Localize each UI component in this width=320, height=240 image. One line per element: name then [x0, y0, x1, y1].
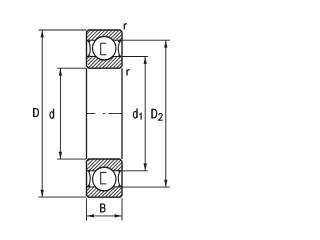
- label d: [50, 109, 54, 119]
- label D: [34, 108, 39, 117]
- bore side line right: [121, 68, 123, 159]
- bore side line left: [86, 68, 88, 159]
- d extension top: [57, 67, 86, 69]
- B extension right: [121, 198, 123, 221]
- d dimension line: [59, 68, 61, 159]
- bottom block body: [87, 159, 123, 197]
- centerline: [87, 113, 123, 115]
- label B: [101, 203, 105, 212]
- right shield (top): [118, 41, 122, 57]
- label r top: [124, 24, 127, 30]
- inner ring hatch (bottom): [87, 159, 123, 171]
- inner ring raceway boundary: [87, 57, 123, 61]
- arrow d1 bottom: [144, 163, 147, 170]
- d1 dimension line: [144, 57, 146, 171]
- B extension left: [86, 198, 88, 221]
- arrow d top: [59, 68, 62, 75]
- left shield (top): [87, 41, 91, 57]
- arrow D bottom: [41, 190, 44, 197]
- arrow D2 bottom: [164, 180, 167, 187]
- outer ring hatch (bottom): [87, 187, 123, 197]
- left shield (bottom): [87, 170, 91, 186]
- label D2: [152, 109, 163, 121]
- inner ring hatch (top): [87, 57, 123, 69]
- d1 extension top: [122, 56, 148, 58]
- outer ring raceway boundary: [87, 36, 123, 40]
- D dimension line: [41, 30, 43, 197]
- arrow B left: [87, 214, 94, 217]
- D extension top: [39, 29, 87, 31]
- top block body: [87, 30, 123, 68]
- arrow d1 top: [144, 57, 147, 64]
- outer ring raceway boundary (bottom): [87, 187, 123, 191]
- arrow D2 top: [164, 40, 167, 47]
- ball center mark (top): [101, 43, 107, 55]
- block outline: [87, 30, 123, 68]
- ball center mark (bottom): [101, 172, 107, 184]
- D2 extension bottom: [122, 186, 170, 188]
- arrow D top: [41, 30, 44, 37]
- D2 dimension line: [165, 40, 167, 187]
- ball (bottom): [93, 167, 116, 190]
- arrow B right: [115, 214, 122, 217]
- d1 extension bottom: [122, 170, 148, 172]
- D extension bottom: [39, 196, 87, 198]
- ball (top): [93, 37, 116, 60]
- inner ring raceway boundary (bottom): [87, 167, 123, 171]
- right shield (bottom): [118, 170, 122, 186]
- label r mid: [127, 70, 130, 76]
- label d1: [133, 108, 141, 119]
- outer ring hatch (top): [87, 30, 123, 40]
- block outline (bottom): [87, 159, 123, 197]
- d extension bottom: [57, 158, 86, 160]
- D2 extension top: [122, 39, 170, 41]
- B dimension line: [87, 215, 123, 217]
- arrow d bottom: [59, 152, 62, 159]
